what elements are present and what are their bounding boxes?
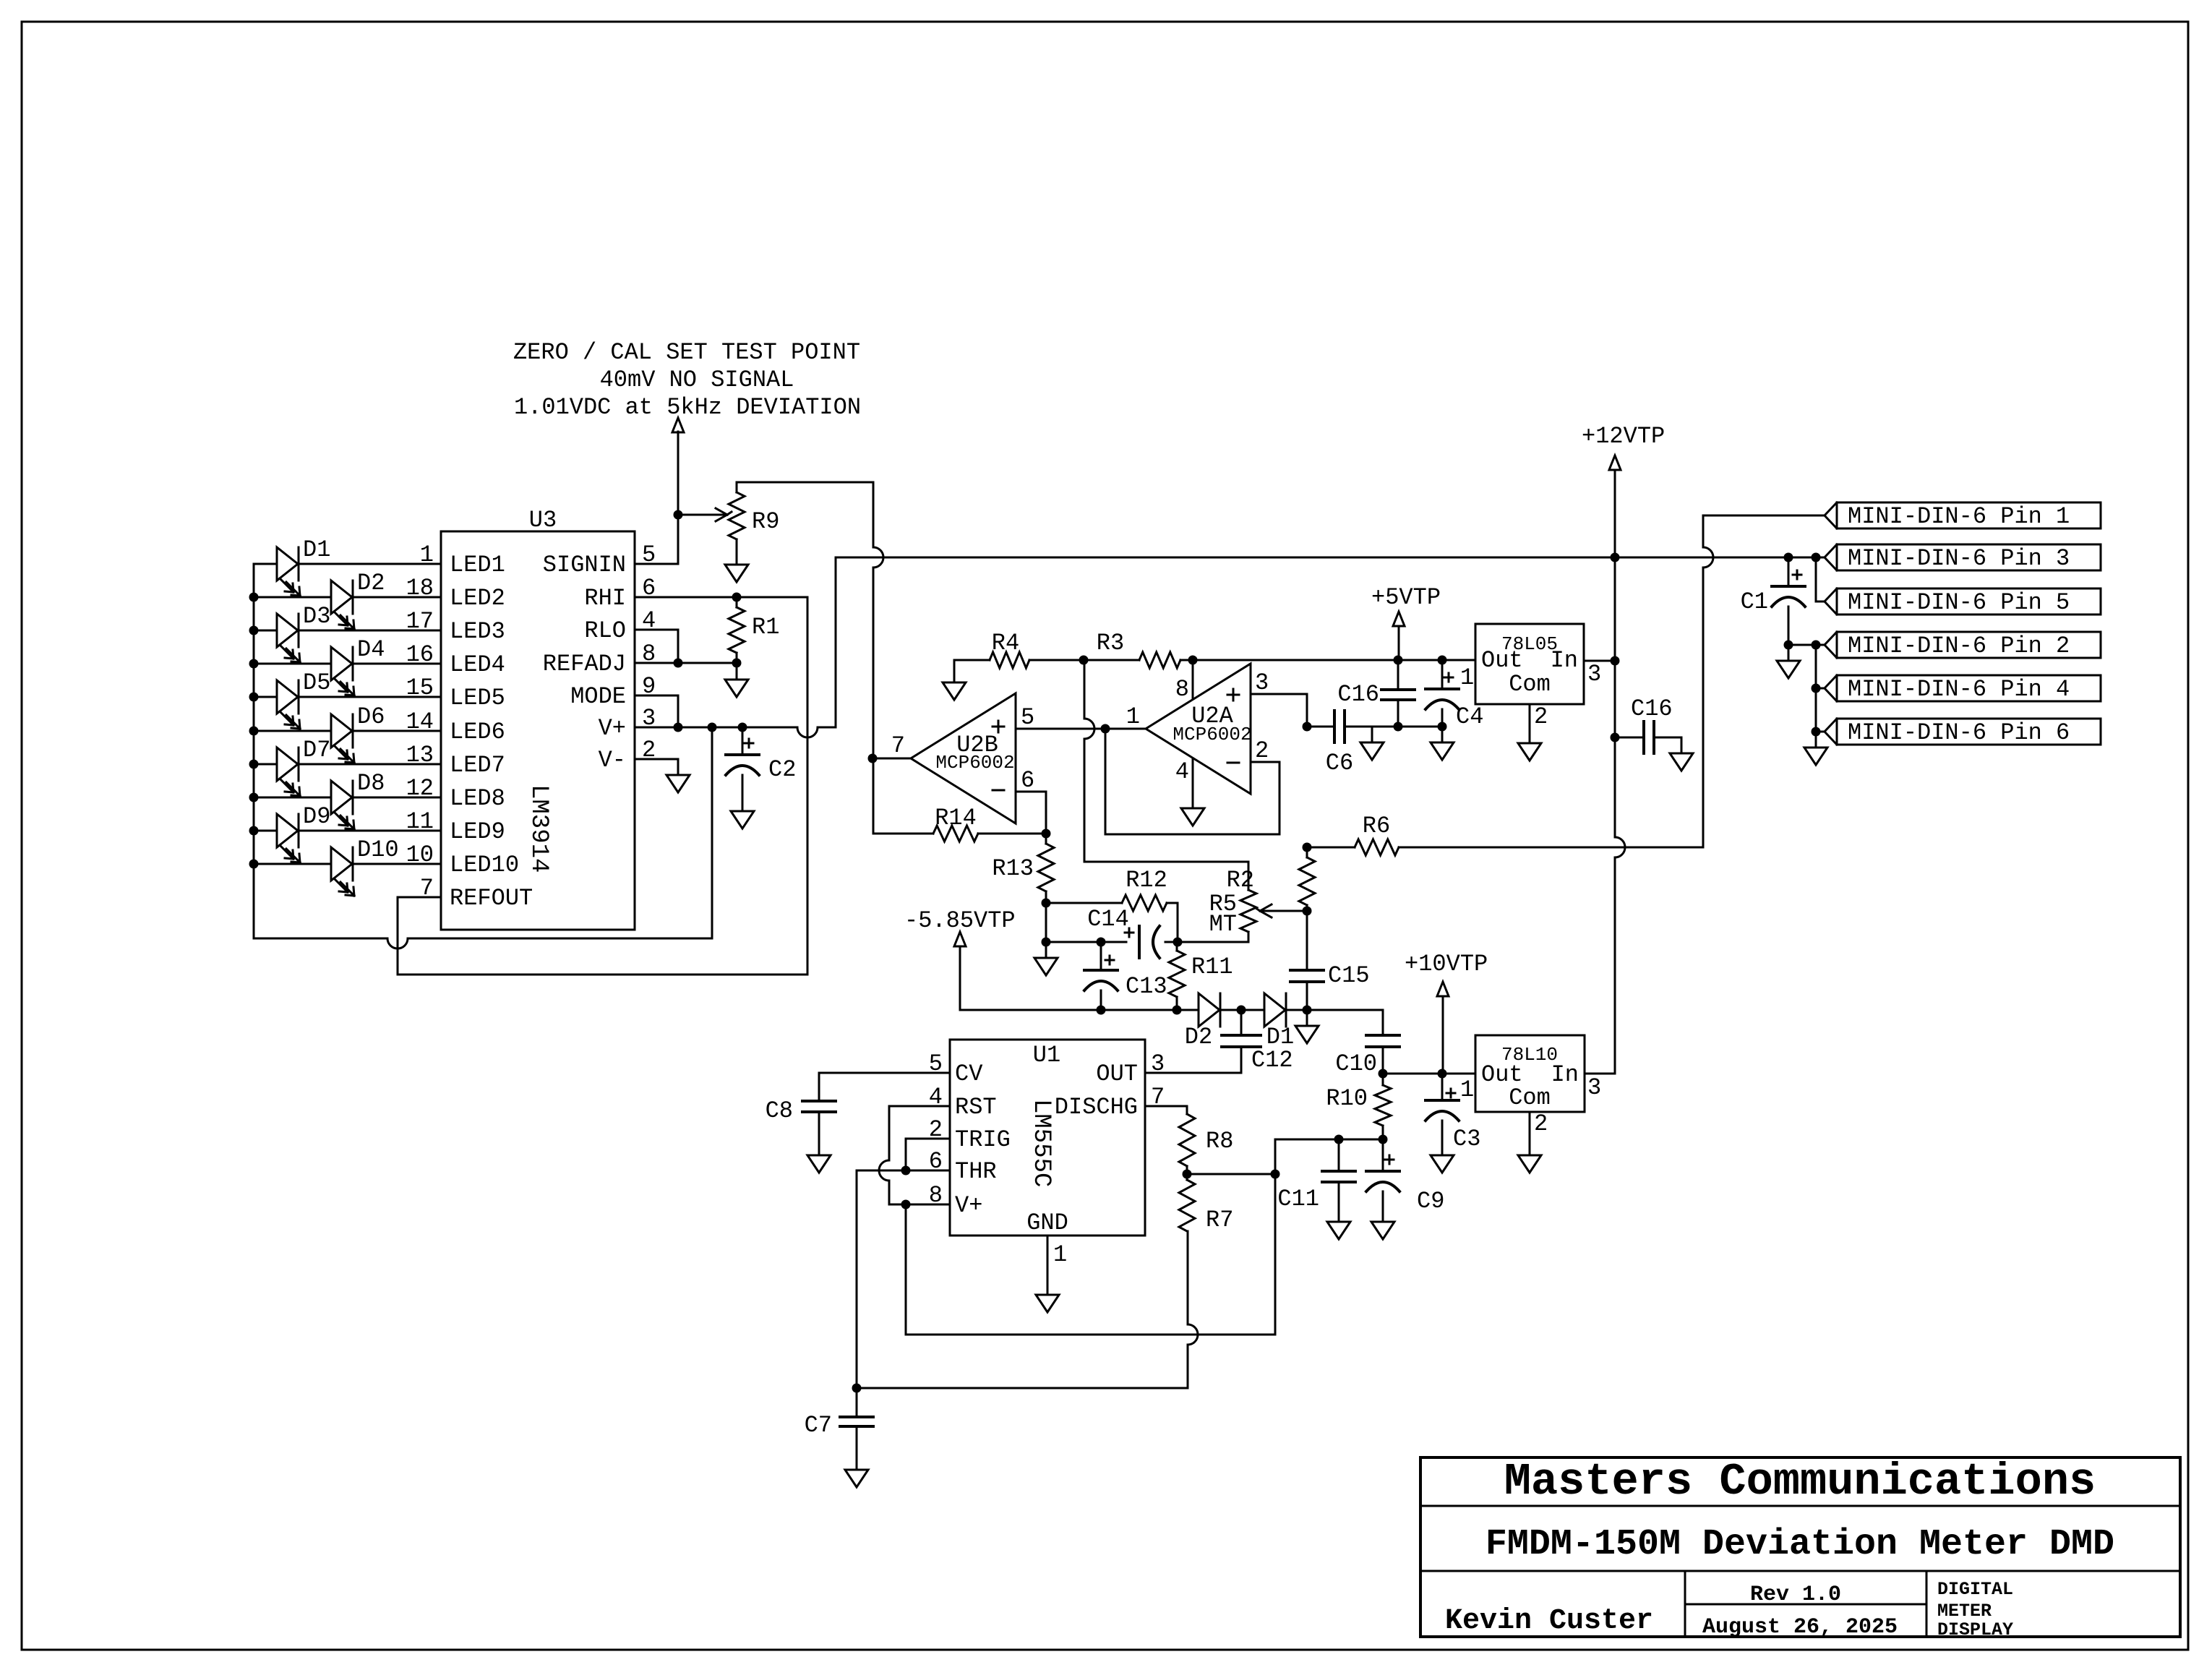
svg-text:MINI-DIN-6 Pin 2: MINI-DIN-6 Pin 2 [1848, 633, 2070, 659]
junction pin4 [1812, 684, 1821, 693]
svg-text:D10: D10 [357, 836, 399, 863]
wire pin7 to R14 corner [873, 758, 933, 834]
capacitor C12 [1222, 1035, 1261, 1047]
label R12 [1126, 867, 1167, 894]
wire C3 stem [1441, 1074, 1444, 1100]
wire LED row D3 [254, 630, 441, 632]
wire C13 stem [1100, 942, 1102, 970]
svg-text:R6: R6 [1363, 813, 1390, 839]
U3 pin label LED4 [450, 651, 505, 678]
hop RST riser over THR wire [879, 1160, 889, 1181]
78L10 pin number 2 [1534, 1110, 1548, 1137]
svg-text:LM3914: LM3914 [525, 784, 552, 873]
svg-text:7: 7 [891, 732, 905, 759]
ground C3 [1431, 1155, 1454, 1173]
label C13 [1126, 973, 1167, 1000]
hop R7 riser over lineA [1188, 1324, 1198, 1345]
wire C11 bottom [1338, 1182, 1340, 1222]
junction R1 bottom [732, 659, 742, 668]
U3 pin number 7 (REFOUT) [420, 875, 434, 902]
svg-text:3: 3 [1587, 1074, 1601, 1101]
svg-text:REFADJ: REFADJ [543, 651, 626, 677]
junction RLO-REFADJ [674, 659, 683, 668]
R5 wiper arrow [1256, 904, 1307, 917]
svg-text:LED6: LED6 [450, 719, 505, 745]
U1 pin label GND [1026, 1209, 1068, 1236]
U1 pin number 7 (DISCHG) [1151, 1084, 1165, 1110]
svg-text:D8: D8 [357, 770, 385, 797]
U3 pin number 11 (LED9) [406, 808, 434, 835]
wire LED row D6 [254, 730, 441, 732]
label -5.85VTP [904, 907, 1016, 934]
svg-text:SIGNIN: SIGNIN [543, 552, 626, 578]
svg-text:1.01VDC at 5kHz DEVIATION: 1.01VDC at 5kHz DEVIATION [514, 394, 861, 421]
ground C9 [1371, 1222, 1394, 1239]
label D1 [1266, 1024, 1294, 1050]
LED D4 [331, 647, 354, 695]
wire out row [1383, 1073, 1475, 1075]
hop +12 riser over R6 wire [1615, 837, 1625, 857]
label D1 [303, 536, 330, 563]
wire lineA riser [1274, 1174, 1277, 1335]
junction pin2-riser [1812, 641, 1821, 650]
svg-text:CV: CV [955, 1061, 983, 1087]
svg-text:R10: R10 [1326, 1085, 1368, 1112]
capacitor C3 (polarized) [1426, 1100, 1459, 1121]
wire MINI-DIN pin1 [1703, 515, 1825, 517]
ground C11 [1327, 1222, 1350, 1239]
U2A plus input mark [1227, 689, 1239, 701]
wire R13-R12 row [1046, 902, 1122, 904]
connector flag MINI-DIN-6 Pin 4 [1825, 675, 2101, 703]
wire pin5 stub [1816, 601, 1825, 603]
label +10VTP [1405, 951, 1488, 977]
U3 pin number 16 (LED4) [406, 641, 434, 668]
U1 pin number 3 (OUT) [1151, 1050, 1165, 1077]
wire REFOUT riser (to RHI) [807, 597, 809, 975]
LED D5 [277, 680, 300, 729]
U2A pin2 wire [1251, 762, 1279, 834]
wire R10 bottom [1382, 1126, 1384, 1139]
svg-text:MINI-DIN-6 Pin 3: MINI-DIN-6 Pin 3 [1848, 545, 2070, 572]
ground C1 [1777, 645, 1800, 678]
svg-text:1: 1 [1460, 664, 1474, 691]
svg-text:ZERO / CAL SET TEST POINT: ZERO / CAL SET TEST POINT [513, 339, 860, 366]
label R13 [992, 855, 1034, 882]
junction +5VTP stem [1394, 656, 1403, 665]
capacitor C1 (polarized) [1772, 586, 1805, 607]
ground C4 [1431, 727, 1454, 760]
wire C16a bottom [1397, 700, 1399, 727]
U2A feedback bottom [1105, 834, 1279, 836]
U3 pin number 6 (RHI) [642, 575, 656, 601]
capacitor C13 (polarized) [1084, 970, 1118, 990]
U2A pin8 stub [1192, 660, 1194, 698]
junction C11 row [1334, 1135, 1344, 1144]
wire C12 stem [1240, 1010, 1243, 1035]
resistor R13 [1038, 844, 1054, 891]
wire R8 bottom [1186, 1166, 1188, 1174]
svg-text:2: 2 [1534, 703, 1548, 730]
capacitor C10 [1366, 1035, 1399, 1047]
wire LED row D4 [254, 663, 441, 665]
diode D2 [1199, 993, 1220, 1027]
LED D2 [331, 581, 354, 629]
resistor R8 [1179, 1114, 1195, 1166]
junction C13 bottom [1097, 1006, 1106, 1015]
C4 plus [1444, 673, 1453, 682]
78L10 pin number 1 [1460, 1076, 1474, 1103]
junction U2B pin7 [868, 754, 878, 763]
U2B pin7 wire [873, 758, 911, 760]
U3 pin label LED10 [450, 852, 519, 878]
svg-text:RST: RST [955, 1094, 997, 1121]
capacitor C4 (polarized) [1426, 689, 1459, 709]
ground diode row [1295, 1010, 1319, 1043]
resistor R2 [1299, 857, 1315, 905]
capacitor C9 (polarized) [1366, 1171, 1399, 1191]
ground R4 [943, 682, 966, 700]
U3 pin label LED2 [450, 585, 505, 612]
wire R6 left [1307, 847, 1355, 849]
label +12VTP [1582, 423, 1665, 450]
wire junction riser to C11 row [1275, 1139, 1339, 1174]
U2B pin number 6 [1021, 767, 1034, 794]
svg-text:U1: U1 [1033, 1042, 1060, 1069]
junction C16b tap [1611, 733, 1620, 742]
78L05 Out label [1481, 647, 1523, 674]
svg-text:C10: C10 [1335, 1050, 1377, 1077]
svg-text:R3: R3 [1097, 630, 1124, 656]
78L10 pin number 3 [1587, 1074, 1601, 1101]
label C1 [1741, 588, 1768, 615]
wire RLO row [635, 630, 678, 663]
junction V+-RST [901, 1200, 911, 1209]
svg-text:D2: D2 [357, 570, 385, 596]
U2B pin number 7 [891, 732, 905, 759]
label C8 [766, 1097, 793, 1124]
capacitor C14 (polarized horizontal) [1139, 926, 1159, 958]
wire RST riser upper [888, 1106, 891, 1160]
U3 pin label LED3 [450, 618, 505, 645]
label C7 [805, 1412, 832, 1439]
wire R3R4 riser upper [1084, 660, 1086, 719]
78L05 pin number 3 [1587, 661, 1601, 688]
wire R4 right [1029, 659, 1084, 661]
label R7 [1206, 1207, 1233, 1233]
connector flag MINI-DIN-6 Pin 2 [1825, 632, 2101, 659]
U2A pin4 stub [1192, 759, 1194, 808]
capacitor C6 [1334, 711, 1345, 742]
wire R3R4 riser lower [1084, 739, 1086, 862]
junction C4 tap [1438, 656, 1447, 665]
svg-text:REFOUT: REFOUT [450, 885, 533, 912]
label C4 [1456, 703, 1483, 730]
title rev [1750, 1583, 1841, 1607]
wire C2 stem [742, 727, 744, 755]
note: zero/cal test point text [513, 339, 861, 421]
wire C1 bottom [1788, 607, 1790, 645]
wire R12 right corner [1167, 903, 1178, 942]
ground pin246 [1804, 732, 1827, 765]
U3 pin label REFADJ [543, 651, 626, 677]
svg-text:R8: R8 [1206, 1128, 1233, 1155]
U3 pin label LED8 [450, 785, 505, 812]
ground 78L05 Com [1518, 743, 1541, 761]
junction bus-D6 [249, 727, 259, 736]
U3 pin label LED1 [450, 552, 505, 578]
wire R5 top corner [1084, 862, 1248, 890]
junction SIGNIN-wiper [674, 510, 683, 520]
wire pin1 riser upper [1702, 515, 1705, 547]
78L05 Com stem [1529, 704, 1531, 743]
wire REFADJ row [635, 662, 737, 664]
junction bus-D5 [249, 693, 259, 702]
wire DISCHG to R8 [1145, 1106, 1187, 1114]
U2A part MCP6002 [1173, 724, 1251, 745]
ground 78L10 Com [1518, 1155, 1541, 1173]
junction C16a-C6 row [1394, 722, 1403, 732]
label R5 MT [1209, 911, 1237, 938]
wire R9top riser upper [873, 482, 875, 547]
junction TRIG-THR [901, 1166, 911, 1176]
wire R3 left [1084, 659, 1139, 661]
wire REFOUT stub [398, 896, 441, 899]
label C6 [1326, 750, 1353, 776]
wire +12 riser lower [1614, 857, 1616, 1074]
U1 pin label THR [955, 1158, 997, 1185]
wire V- row [635, 759, 678, 775]
svg-text:8: 8 [1175, 676, 1189, 703]
U2A label [1191, 703, 1233, 729]
wire bus riser to V+ rail [711, 727, 713, 938]
svg-text:Rev 1.0: Rev 1.0 [1750, 1583, 1841, 1607]
wire lineB [857, 1387, 1188, 1389]
U3 pin number 17 (LED3) [406, 608, 434, 635]
wire R14 to R13 [978, 833, 1046, 835]
label R11 [1191, 954, 1233, 980]
svg-text:RLO: RLO [584, 617, 626, 644]
wire V+ riser to +12 rail [835, 557, 837, 727]
svg-text:C4: C4 [1456, 703, 1483, 730]
svg-text:1: 1 [1053, 1241, 1067, 1268]
junction R11 bottom [1173, 1006, 1182, 1015]
wire pin5 riser [1815, 557, 1817, 601]
capacitor C16 (at 78L05) [1381, 690, 1415, 700]
svg-text:GND: GND [1026, 1209, 1068, 1236]
U1 part LM555C [1027, 1099, 1055, 1187]
title divider 1 [1420, 1505, 2180, 1507]
wire C16b right [1654, 737, 1681, 753]
78L05 pin number 2 [1534, 703, 1548, 730]
U3 part name LM3914 [525, 784, 552, 873]
wire THR left riser [856, 1170, 858, 1388]
junction +12 rail [1611, 553, 1620, 562]
78L05 part label [1501, 633, 1558, 655]
U3 pin label SIGNIN [543, 552, 626, 578]
svg-text:40mV NO SIGNAL: 40mV NO SIGNAL [600, 367, 794, 393]
junction R13 bottom [1042, 899, 1051, 908]
C9 plus [1385, 1155, 1394, 1164]
test point +10VTP arrow [1437, 982, 1449, 1074]
U2A pin number 8 [1175, 676, 1189, 703]
LED D8 [331, 781, 354, 829]
test point +12VTP arrow [1609, 455, 1621, 557]
wire R1 top [736, 597, 738, 607]
U3 pin label RLO [584, 617, 626, 644]
wire R8R7 junction row [1187, 1173, 1275, 1176]
resistor R1 [729, 607, 745, 653]
U2A pin number 4 [1175, 758, 1189, 785]
label D10 [357, 836, 399, 863]
wire C7 stem [856, 1388, 858, 1417]
wire D1 out [1286, 1009, 1307, 1011]
U3 pin number 18 (LED2) [406, 575, 434, 601]
label R5 [1209, 891, 1237, 917]
svg-text:DISCHG: DISCHG [1055, 1094, 1138, 1121]
label C9 [1417, 1188, 1444, 1215]
wire C6 row left [1307, 726, 1334, 728]
junction C6 row at pin3 riser [1303, 722, 1312, 732]
junction rail-C1 [1784, 553, 1793, 562]
label C2 [768, 756, 796, 783]
svg-text:D7: D7 [303, 737, 330, 763]
svg-text:Com: Com [1509, 1084, 1551, 1111]
title vertical divider 1 [1684, 1571, 1686, 1637]
potentiometer R9 [729, 492, 745, 539]
svg-text:R9: R9 [752, 508, 779, 535]
wire R3 right [1180, 659, 1193, 661]
78L10 part label [1501, 1044, 1558, 1066]
label C11 [1277, 1186, 1319, 1212]
wire RST stub [889, 1105, 950, 1108]
svg-text:C7: C7 [805, 1412, 832, 1439]
C3 plus [1446, 1089, 1455, 1097]
label R1 [752, 614, 779, 641]
U3 pin number 12 (LED8) [406, 775, 434, 802]
U1 pin number 4 (RST) [929, 1084, 943, 1110]
wire D2-D1 [1220, 1009, 1264, 1011]
junction C12 tap [1237, 1006, 1246, 1015]
resistor R11 [1169, 951, 1185, 997]
78L05 In label [1551, 647, 1578, 674]
U3 pin number 8 (REFADJ) [642, 641, 656, 667]
wire pin1 riser lower [1702, 568, 1705, 847]
resistor R12 [1122, 895, 1167, 911]
wire RHI row [635, 596, 807, 599]
connector flag MINI-DIN-6 Pin 3 [1825, 544, 2101, 572]
wire +12V rail [836, 557, 1825, 559]
svg-text:LED2: LED2 [450, 585, 505, 612]
U3 pin number 14 (LED6) [406, 708, 434, 735]
junction R4-R3 [1079, 656, 1089, 665]
svg-text:MCP6002: MCP6002 [1173, 724, 1251, 745]
svg-text:C16: C16 [1337, 681, 1379, 708]
hop R9top riser over rail [873, 547, 883, 568]
junction C13 tap [1097, 938, 1106, 947]
svg-text:3: 3 [1151, 1050, 1165, 1077]
title vertical divider 2 [1926, 1571, 1928, 1637]
wire R13 bottom [1045, 891, 1047, 903]
junction R10-C9 [1379, 1135, 1388, 1144]
title divider 2 [1420, 1570, 2180, 1572]
junction C10-R10-out row [1379, 1069, 1388, 1079]
svg-text:C11: C11 [1277, 1186, 1319, 1212]
svg-text:LM555C: LM555C [1027, 1099, 1055, 1187]
connector flag MINI-DIN-6 Pin 6 [1825, 719, 2101, 746]
ground left node [1034, 942, 1058, 975]
U1 pin label DISCHG [1055, 1094, 1138, 1121]
U3 pin label REFOUT [450, 885, 533, 912]
wire diode row to C10 [1307, 1010, 1383, 1035]
svg-text:MINI-DIN-6 Pin 6: MINI-DIN-6 Pin 6 [1848, 719, 2070, 746]
svg-text:R4: R4 [992, 630, 1019, 656]
svg-text:3: 3 [1587, 661, 1601, 688]
U3 box [441, 531, 635, 930]
svg-text:LED8: LED8 [450, 785, 505, 812]
wire C10 bottom [1382, 1047, 1384, 1074]
svg-text:1: 1 [1126, 703, 1140, 730]
label C12 [1251, 1047, 1293, 1074]
junction rail-pin5 riser [1812, 553, 1821, 562]
title project line1 [1937, 1579, 2013, 1600]
junction R2-wiper [1303, 907, 1312, 916]
wire LED anode bus [253, 564, 255, 938]
U2B label [956, 732, 998, 758]
test point arrow [672, 418, 684, 564]
title block outer box [1420, 1457, 2180, 1637]
U1 pin label V+ [955, 1192, 982, 1219]
svg-text:TRIG: TRIG [955, 1126, 1011, 1153]
wire pin2 row [1788, 644, 1825, 646]
U1 box [950, 1040, 1145, 1236]
svg-text:C14: C14 [1087, 906, 1129, 933]
label D6 [357, 703, 385, 730]
svg-text:Masters Communications: Masters Communications [1504, 1456, 2096, 1507]
U3 pin label MODE [570, 683, 626, 710]
svg-text:R12: R12 [1126, 867, 1167, 894]
wire pin6 stub [1816, 731, 1825, 733]
U2A pin number 2 [1255, 737, 1269, 764]
svg-text:R13: R13 [992, 855, 1034, 882]
U3 pin number 5 (SIGNIN) [642, 541, 656, 568]
U3 pin number 13 (LED7) [406, 742, 434, 768]
U1 pin number 8 (V+) [929, 1182, 943, 1209]
wire bus bottom run [254, 938, 712, 949]
ground U1 [1036, 1295, 1059, 1312]
svg-text:R14: R14 [935, 805, 977, 831]
svg-text:LED3: LED3 [450, 618, 505, 645]
potentiometer R5 [1240, 890, 1256, 932]
svg-text:C16: C16 [1631, 695, 1673, 722]
U1 refdes label [1033, 1042, 1060, 1069]
label C16b [1631, 695, 1673, 722]
svg-text:V+: V+ [599, 715, 626, 742]
wire C12 to OUT pin [1145, 1047, 1241, 1073]
diode D1 [1264, 993, 1286, 1027]
svg-text:D5: D5 [303, 669, 330, 696]
svg-text:U3: U3 [529, 507, 557, 534]
wire pin246 riser [1815, 645, 1817, 732]
wire C9 bottom [1382, 1191, 1384, 1222]
LED D6 [331, 714, 354, 763]
U2A pin number 3 [1255, 669, 1269, 696]
svg-text:1: 1 [1460, 1076, 1474, 1103]
title project line2 [1937, 1601, 1992, 1622]
wire R7 bottom riser upper [1187, 1231, 1189, 1324]
svg-text:OUT: OUT [1096, 1061, 1138, 1087]
wire C13 bottom [1100, 990, 1102, 1010]
